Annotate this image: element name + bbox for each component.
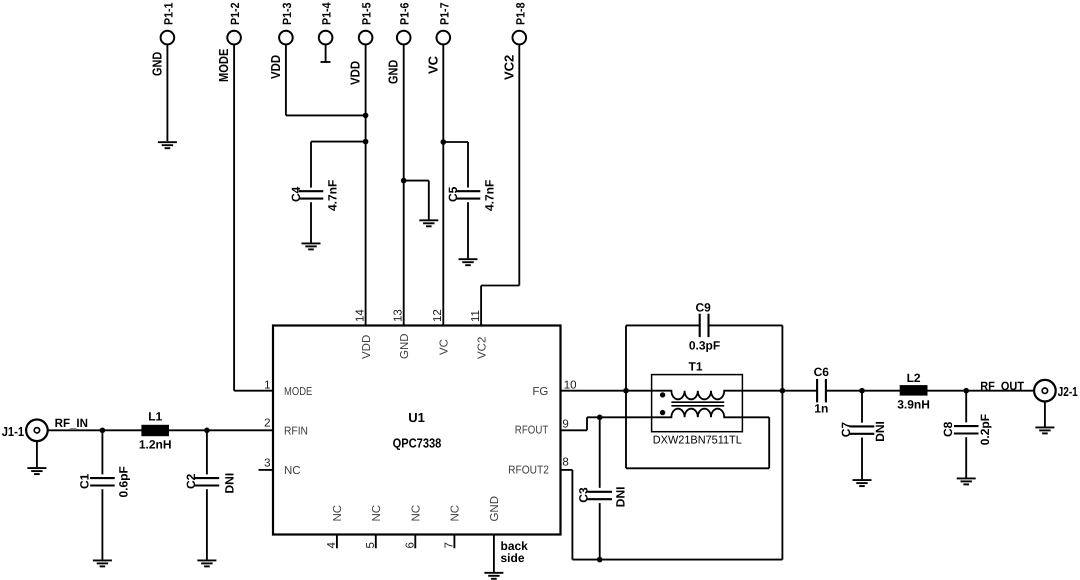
svg-text:DNI: DNI	[614, 487, 628, 508]
svg-text:10: 10	[564, 380, 577, 392]
junction C1	[100, 428, 106, 434]
capacitor C3	[587, 492, 612, 499]
wire C2 bottom lead	[206, 489, 208, 559]
svg-text:4.7nF: 4.7nF	[483, 180, 497, 211]
junction VDD join	[363, 113, 369, 119]
junction C2	[204, 428, 210, 434]
transformer T1 primary winding	[652, 391, 743, 400]
connector P1-5	[359, 31, 373, 45]
pin 4 stub	[336, 535, 338, 549]
svg-text:RF_IN: RF_IN	[55, 416, 88, 430]
svg-text:C4: C4	[289, 186, 303, 202]
wire P1-5 VDD to pin 14	[365, 44, 367, 326]
connector P1-8	[513, 31, 527, 45]
wire C4 bottom lead	[310, 202, 312, 242]
connector J2-1	[1034, 380, 1056, 402]
svg-text:0.3pF: 0.3pF	[689, 339, 720, 353]
junction RFOUT C3	[597, 415, 603, 421]
wire P1-3 VDD vertical	[285, 44, 287, 116]
wire P1-8 VC2 vertical	[518, 44, 520, 286]
wire P1-7 VC to pin 12	[442, 44, 444, 326]
wire backside GND pin to ground	[493, 535, 495, 572]
connector P1-1	[161, 31, 175, 45]
svg-text:DXW21BN7511TL: DXW21BN7511TL	[653, 435, 743, 447]
svg-text:VC2: VC2	[501, 55, 516, 80]
svg-text:GND: GND	[399, 333, 411, 359]
svg-text:VC2: VC2	[476, 337, 488, 359]
svg-text:C3: C3	[577, 487, 591, 503]
ground C7	[853, 480, 872, 486]
connector P1-4	[319, 31, 333, 45]
ground C4	[302, 243, 321, 249]
wire P1-6 GND to pin 13	[403, 44, 405, 326]
svg-text:GND: GND	[386, 60, 401, 84]
capacitor C5	[456, 191, 481, 198]
svg-text:MODE: MODE	[216, 48, 231, 82]
svg-text:1: 1	[264, 380, 270, 392]
svg-text:QPC7338: QPC7338	[393, 436, 442, 451]
svg-text:GND: GND	[489, 496, 501, 522]
wire C4 branch horizontal	[311, 141, 366, 143]
junction GND tap	[401, 178, 407, 184]
svg-text:1n: 1n	[814, 401, 828, 415]
svg-text:P1-1: P1-1	[161, 2, 175, 25]
wire VC2 to pin 11	[480, 286, 482, 326]
capacitor C1	[90, 478, 115, 485]
wire C7 bottom lead	[861, 438, 863, 480]
wire GND tap horizontal	[404, 180, 429, 182]
capacitor C4	[299, 191, 324, 198]
pin 6 stub	[414, 535, 416, 549]
connector J2-1 center pin	[1042, 388, 1047, 393]
svg-text:side: side	[501, 551, 525, 565]
wire pin 8 RFOUT2 stub	[561, 469, 573, 471]
svg-text:NC: NC	[371, 505, 383, 522]
wire MODE vertical	[233, 44, 235, 391]
ground C5	[459, 259, 478, 265]
svg-text:VC: VC	[425, 55, 440, 74]
wire C6 to J2	[825, 390, 1034, 392]
ground J2	[1035, 427, 1054, 433]
svg-text:7: 7	[443, 542, 455, 548]
svg-text:J2-1: J2-1	[1058, 384, 1078, 399]
svg-text:C1: C1	[78, 473, 92, 489]
svg-text:4.7nF: 4.7nF	[326, 180, 340, 211]
svg-text:C7: C7	[839, 422, 853, 438]
svg-text:11: 11	[470, 310, 482, 322]
svg-text:C9: C9	[696, 301, 712, 315]
wire C5 branch horizontal	[443, 141, 468, 143]
svg-text:2: 2	[264, 417, 270, 429]
junction C5 branch	[441, 139, 447, 145]
capacitor C8	[954, 426, 979, 433]
wire pin 9 RFOUT stub	[561, 429, 588, 431]
wire bottom rail	[572, 559, 782, 561]
svg-text:1.2nH: 1.2nH	[139, 438, 172, 452]
junction C8	[963, 388, 969, 394]
connector P1-7	[437, 31, 451, 45]
connector P1-2	[227, 31, 241, 45]
svg-text:U1: U1	[408, 410, 425, 425]
svg-text:NC: NC	[450, 505, 462, 522]
capacitor C9	[700, 314, 709, 337]
ground C2	[197, 560, 216, 566]
junction C7	[859, 388, 865, 394]
wire output right vertical	[781, 325, 783, 559]
junction C4 branch	[363, 139, 369, 145]
junction FG loop left	[623, 388, 629, 394]
inductor L1	[141, 425, 169, 436]
svg-text:8: 8	[562, 457, 568, 469]
svg-text:VC: VC	[439, 339, 451, 355]
svg-text:MODE: MODE	[284, 386, 313, 398]
wire RFOUT jog up	[586, 417, 588, 430]
svg-text:P1-7: P1-7	[437, 2, 451, 25]
wire FG from pin 10	[561, 390, 652, 392]
svg-text:P1-6: P1-6	[398, 2, 412, 25]
capacitor C6	[817, 379, 826, 402]
wire RFOUT2 drop	[571, 470, 573, 560]
wire RF_IN main	[48, 429, 273, 431]
ground GND tap	[419, 220, 438, 226]
wire C1 top lead	[101, 430, 103, 474]
wire T1 loop right up	[768, 417, 770, 468]
svg-text:DNI: DNI	[873, 421, 887, 442]
svg-text:J1-1: J1-1	[2, 424, 24, 439]
svg-text:FG: FG	[532, 386, 548, 398]
svg-text:P1-8: P1-8	[513, 2, 527, 25]
wire J2 to ground	[1044, 402, 1046, 427]
svg-text:6: 6	[404, 542, 416, 548]
wire C8 bottom lead	[965, 437, 967, 477]
svg-text:C5: C5	[446, 186, 460, 202]
capacitor C2	[195, 478, 220, 485]
svg-text:NC: NC	[332, 505, 344, 522]
ground U1 back side	[484, 573, 503, 579]
ground C8	[957, 478, 976, 484]
svg-text:P1-3: P1-3	[280, 2, 294, 25]
transformer T1 phase dot primary	[660, 392, 665, 397]
svg-text:RFIN: RFIN	[284, 425, 308, 437]
pin 5 stub	[375, 535, 377, 549]
svg-text:0.2pF: 0.2pF	[978, 414, 992, 445]
svg-text:RFOUT2: RFOUT2	[508, 464, 549, 476]
svg-text:L2: L2	[907, 371, 921, 385]
svg-text:P1-5: P1-5	[360, 2, 374, 25]
svg-text:9: 9	[562, 419, 568, 431]
ground C1	[93, 560, 112, 566]
wire J1 to ground	[36, 441, 38, 467]
wire GND tap vertical	[428, 181, 430, 220]
svg-text:VDD: VDD	[268, 55, 283, 79]
capacitor C7	[850, 426, 875, 433]
connector J1-1	[26, 420, 48, 442]
wire T1 secondary right lead	[742, 416, 769, 418]
svg-text:C6: C6	[814, 365, 830, 379]
wire C3 bottom lead	[599, 503, 601, 559]
svg-text:RFOUT: RFOUT	[515, 424, 549, 436]
svg-text:P1-2: P1-2	[228, 2, 242, 25]
wire C5 bottom lead	[467, 202, 469, 258]
wire C2 top lead	[206, 430, 208, 474]
wire C9 loop left edge	[625, 325, 627, 468]
svg-text:C2: C2	[184, 473, 198, 489]
ground J1	[27, 468, 46, 474]
pin 3 NC stub	[259, 469, 274, 471]
wire C9 loop top right	[708, 324, 782, 326]
wire C8 top lead	[965, 391, 967, 423]
svg-text:NC: NC	[284, 465, 301, 477]
svg-text:C8: C8	[941, 421, 955, 437]
svg-text:3: 3	[264, 458, 270, 470]
wire P1-4 stub	[325, 44, 327, 62]
svg-text:4: 4	[326, 542, 338, 549]
connector P1-3	[279, 31, 293, 45]
wire C5 top lead	[467, 142, 469, 188]
svg-text:0.6pF: 0.6pF	[116, 466, 130, 497]
svg-text:NC: NC	[411, 505, 423, 522]
wire C3 top lead	[599, 417, 601, 488]
svg-text:13: 13	[393, 309, 405, 322]
wire P1-1 to ground	[166, 44, 168, 142]
svg-text:DNI: DNI	[223, 473, 237, 494]
inductor L2	[900, 385, 928, 396]
svg-text:3.9nH: 3.9nH	[897, 398, 930, 412]
svg-text:14: 14	[354, 309, 366, 322]
op-amp U1 body	[273, 326, 561, 535]
wire VDD horizontal join	[286, 114, 366, 116]
wire T1 loop bottom	[626, 467, 769, 469]
svg-text:P1-4: P1-4	[320, 2, 334, 25]
wire C9 loop top left	[626, 324, 700, 326]
svg-text:L1: L1	[148, 410, 162, 424]
svg-text:VDD: VDD	[361, 335, 373, 359]
connector P1-6	[397, 31, 411, 45]
wire C7 top lead	[861, 391, 863, 423]
wire MODE to pin 1	[234, 390, 273, 392]
svg-text:VDD: VDD	[348, 61, 363, 85]
junction C3 bottom rail	[597, 557, 603, 563]
transformer T1 core line 2	[671, 405, 724, 407]
transformer T1 body	[652, 375, 743, 432]
transformer T1 core line 1	[671, 401, 724, 403]
pin 7 stub	[453, 535, 455, 549]
wire C1 bottom lead	[101, 489, 103, 559]
junction output right vertical	[780, 388, 786, 394]
wire VC2 jog horizontal	[481, 285, 519, 287]
wire T1 top right to C6	[742, 390, 817, 392]
svg-text:5: 5	[365, 542, 377, 548]
ground P1-1	[158, 142, 177, 148]
wire RFOUT to T1 bottom	[587, 416, 652, 418]
svg-text:RF_OUT: RF_OUT	[980, 379, 1024, 393]
transformer T1 secondary winding	[652, 409, 743, 418]
svg-text:T1: T1	[688, 360, 702, 374]
transformer T1 phase dot secondary	[660, 410, 665, 415]
wire C4 top lead	[310, 142, 312, 188]
connector J1-1 center pin	[34, 428, 39, 433]
svg-text:GND: GND	[149, 52, 164, 76]
wire P1-4 stub end tick	[321, 61, 331, 63]
svg-text:12: 12	[432, 309, 444, 322]
